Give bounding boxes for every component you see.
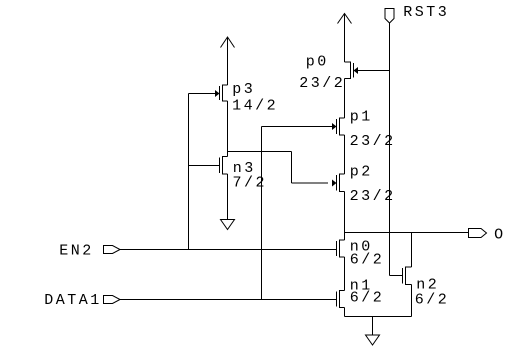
svg-text:7/2: 7/2 [233, 175, 268, 192]
svg-text:6/2: 6/2 [415, 292, 450, 309]
svg-text:23/2: 23/2 [299, 75, 345, 92]
svg-text:14/2: 14/2 [232, 98, 278, 115]
svg-text:p2: p2 [350, 164, 373, 181]
svg-text:RST3: RST3 [403, 4, 449, 21]
svg-text:p3: p3 [232, 81, 255, 98]
svg-text:O: O [494, 226, 506, 243]
svg-text:p0: p0 [306, 54, 329, 71]
svg-text:23/2: 23/2 [350, 133, 396, 150]
svg-text:p1: p1 [350, 109, 373, 126]
svg-text:6/2: 6/2 [350, 252, 385, 269]
svg-text:6/2: 6/2 [350, 290, 385, 307]
svg-text:EN2: EN2 [59, 242, 94, 259]
svg-text:DATA1: DATA1 [44, 292, 102, 309]
svg-text:23/2: 23/2 [350, 188, 396, 205]
